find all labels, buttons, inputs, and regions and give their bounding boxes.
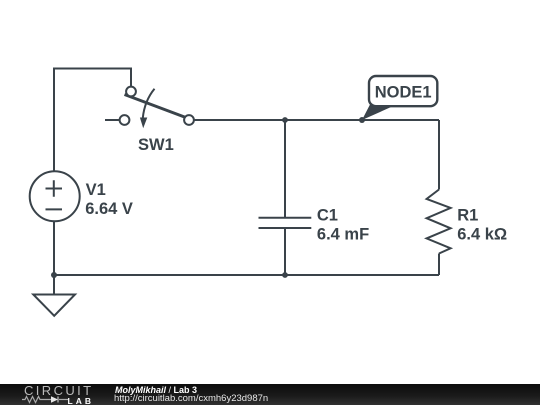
voltage source V1 circle bbox=[30, 171, 80, 221]
svg-text:6.4 mF: 6.4 mF bbox=[317, 226, 369, 244]
wire switch left stub bbox=[105, 119, 120, 121]
logo squiggle bbox=[22, 395, 70, 404]
wire ground stem bbox=[53, 275, 55, 295]
wire top-left horizontal bbox=[54, 69, 131, 172]
junction dot capacitor bottom bbox=[282, 272, 288, 278]
V1 minus sign bbox=[46, 208, 63, 210]
junction dot capacitor top bbox=[282, 117, 288, 123]
wire resistor bottom bbox=[438, 254, 440, 276]
switch arrow arc bbox=[143, 89, 155, 118]
capacitor C1 bottom wire bbox=[284, 228, 286, 275]
capacitor C1 plates bbox=[259, 217, 312, 219]
svg-text:6.4 kΩ: 6.4 kΩ bbox=[457, 226, 507, 244]
junction dot node1 bbox=[359, 117, 365, 123]
logo CIRCUIT bbox=[24, 383, 94, 398]
switch arrowhead bbox=[140, 118, 147, 129]
svg-text:NODE1: NODE1 bbox=[375, 84, 432, 102]
svg-text:R1: R1 bbox=[457, 207, 478, 225]
svg-text:V1: V1 bbox=[86, 181, 106, 199]
capacitor C1 top wire bbox=[284, 120, 286, 218]
footer url bbox=[114, 393, 268, 404]
logo LAB bbox=[68, 396, 94, 406]
NODE1 callout box bbox=[369, 76, 437, 106]
switch right throw circle bbox=[184, 115, 194, 125]
footer title bbox=[115, 385, 197, 395]
switch left throw circle bbox=[120, 115, 130, 125]
switch SW1 blade bbox=[125, 95, 189, 119]
wire switch right to corner bbox=[194, 119, 439, 121]
svg-text:SW1: SW1 bbox=[138, 136, 174, 154]
wire right vertical to resistor bbox=[438, 120, 440, 190]
switch pivot circle bbox=[126, 87, 136, 97]
wire V1 bottom to rail bbox=[53, 221, 55, 275]
svg-text:C1: C1 bbox=[317, 207, 338, 225]
svg-text:6.64 V: 6.64 V bbox=[85, 200, 133, 218]
junction dot ground bbox=[51, 272, 57, 278]
ground bbox=[33, 295, 75, 316]
wire bottom rail bbox=[54, 274, 439, 276]
resistor R1 bbox=[427, 190, 451, 254]
NODE1 callout tail bbox=[362, 105, 397, 121]
footer bar bbox=[0, 384, 540, 405]
V1 plus sign bbox=[46, 180, 63, 197]
